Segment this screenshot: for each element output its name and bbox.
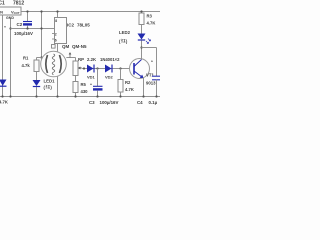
regulator IC2 78L05 bbox=[57, 12, 59, 18]
svg-text:78L05: 78L05 bbox=[77, 23, 90, 28]
capacitor C3 100u/16V bbox=[93, 85, 103, 87]
wire collector up bbox=[141, 48, 143, 60]
resistor R1 470 bbox=[34, 60, 39, 72]
svg-text:LED2: LED2 bbox=[119, 30, 131, 35]
transistor VT1 9013 bbox=[130, 59, 150, 79]
svg-text:1N4001×2: 1N4001×2 bbox=[100, 57, 120, 62]
svg-text:IC2: IC2 bbox=[67, 23, 75, 28]
svg-text:C2: C2 bbox=[17, 22, 23, 27]
wire GND bottom rail bbox=[0, 96, 160, 98]
svg-text:8: 8 bbox=[55, 19, 57, 23]
wire emitter down bbox=[143, 78, 145, 97]
wire +12V top rail bbox=[22, 11, 161, 13]
resistor R3 4.7K top right bbox=[141, 12, 143, 14]
capacitor C4 bbox=[152, 75, 161, 77]
wire +12V drop to sensor electrode bbox=[41, 12, 43, 58]
LED LED2 red bbox=[138, 34, 146, 40]
node GND lead / ground line bbox=[9, 27, 11, 29]
svg-text:VT1: VT1 bbox=[146, 73, 154, 78]
wire 7812 GND lead bbox=[10, 19, 12, 97]
svg-text:4.7K: 4.7K bbox=[147, 21, 156, 26]
diode VD2 bbox=[105, 65, 112, 73]
emitter inside with arrow bbox=[134, 71, 143, 78]
svg-text:VOUT: VOUT bbox=[11, 10, 20, 16]
LED LED1 red bbox=[33, 80, 41, 86]
node base wire to R2 bbox=[119, 67, 121, 69]
wire RP to R5 bbox=[75, 76, 77, 82]
svg-text:C3: C3 bbox=[89, 100, 95, 105]
potentiometer RP 2.2K bbox=[73, 61, 78, 76]
svg-text:100µ/16V: 100µ/16V bbox=[14, 31, 33, 36]
heater coil bbox=[52, 54, 55, 75]
wire wiper to diodes to base bbox=[82, 68, 129, 70]
svg-text:6: 6 bbox=[55, 39, 57, 43]
node left column / bottom rail bbox=[1, 95, 3, 97]
wire left input column bbox=[2, 16, 4, 97]
wire R3 to LED2 bbox=[141, 25, 143, 35]
svg-text:IC1: IC1 bbox=[0, 1, 5, 7]
terminal square bbox=[52, 45, 56, 49]
wiper arrow mark bbox=[69, 53, 71, 58]
wire electrode node to R1 bbox=[37, 57, 42, 59]
resistor R5 430 bbox=[73, 82, 78, 93]
wire heater bottom lead bbox=[57, 77, 59, 97]
svg-text:+: + bbox=[90, 83, 92, 87]
wire C3 lead bbox=[97, 69, 99, 87]
svg-text:430: 430 bbox=[81, 89, 89, 94]
resistor R2 4.7K bbox=[120, 69, 122, 80]
diode VD (left, cut off) bbox=[0, 80, 7, 86]
wire LED2 to collector node bbox=[141, 41, 143, 48]
svg-text:QM: QM bbox=[62, 44, 70, 49]
svg-text:0.1µ: 0.1µ bbox=[149, 100, 158, 105]
capacitor C2 100u/16V bbox=[27, 12, 29, 22]
diode VD1 bbox=[87, 65, 94, 73]
svg-text:QM-N5: QM-N5 bbox=[72, 44, 87, 49]
svg-text:RP: RP bbox=[78, 57, 84, 62]
svg-text:VD2: VD2 bbox=[105, 75, 114, 80]
electrode left bbox=[46, 55, 48, 73]
svg-text:100µ/16V: 100µ/16V bbox=[100, 100, 119, 105]
pin stub left lower bbox=[52, 38, 54, 40]
svg-text:VD1: VD1 bbox=[87, 75, 96, 80]
regulator IC1 7812 bbox=[0, 7, 21, 15]
wire IC2 out lead bbox=[57, 44, 59, 53]
svg-text:R2: R2 bbox=[125, 80, 131, 85]
pin stub left upper bbox=[52, 33, 54, 35]
svg-text:2.2K: 2.2K bbox=[87, 57, 97, 62]
svg-text:2: 2 bbox=[55, 33, 57, 37]
wire electrode right to RP bbox=[66, 57, 75, 59]
svg-text:R5: R5 bbox=[81, 82, 87, 87]
svg-text:9013: 9013 bbox=[146, 81, 156, 86]
svg-text:C4: C4 bbox=[137, 100, 143, 105]
node diode junction to C3 bbox=[96, 67, 98, 69]
svg-text:7812: 7812 bbox=[13, 1, 24, 7]
electrode right bbox=[60, 55, 62, 73]
gas sensor QM QM-N5 bbox=[41, 51, 67, 77]
node GND lead / bottom rail bbox=[9, 95, 11, 97]
svg-text:4.7K: 4.7K bbox=[125, 87, 134, 92]
wire collector node to C4 bbox=[142, 47, 157, 49]
svg-text:LED1: LED1 bbox=[44, 79, 56, 84]
svg-text:R3: R3 bbox=[147, 14, 153, 19]
svg-text:4.7k: 4.7k bbox=[22, 63, 31, 68]
svg-text:IN: IN bbox=[0, 10, 3, 15]
wire R1 to LED1 bbox=[36, 72, 38, 81]
wire ground line bbox=[11, 28, 55, 30]
svg-text:4.7K: 4.7K bbox=[0, 100, 8, 105]
svg-text:R1: R1 bbox=[23, 56, 29, 61]
svg-text:n: n bbox=[4, 25, 6, 29]
collector inside bbox=[134, 60, 142, 67]
